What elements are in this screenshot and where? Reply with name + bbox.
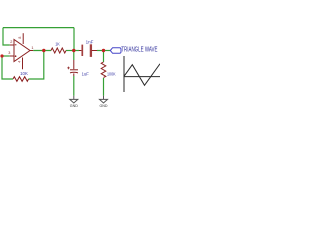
resistor R3 100K (101, 62, 106, 77)
wire feedback bottom (29, 51, 44, 80)
svg-text:3: 3 (8, 51, 10, 55)
junction node output (42, 49, 45, 52)
wire output rail (33, 50, 51, 52)
ground GND2 (100, 96, 108, 103)
svg-text:2: 2 (10, 40, 12, 44)
wire R3 to gnd (103, 78, 105, 96)
capacitor C1 1nF (82, 44, 91, 57)
resistor R1 10K (13, 77, 29, 82)
waveform axis horizontal (124, 76, 160, 78)
wire pin3 horizontal (2, 55, 10, 57)
svg-text:GND: GND (100, 104, 108, 108)
waveform triangle wave (124, 64, 160, 86)
wire top rail down (73, 28, 75, 51)
svg-text:10K: 10K (20, 71, 29, 77)
svg-text:100K: 100K (107, 72, 116, 78)
capacitor C2 1uF polarized (67, 60, 78, 76)
svg-text:TRIANGLE WAVE: TRIANGLE WAVE (121, 44, 157, 53)
waveform axis vertical (123, 56, 125, 92)
wire down to C2 (73, 51, 75, 61)
wire resistor to cap (66, 50, 79, 52)
wire lower left loop (2, 56, 13, 79)
junction node pin3 (0, 54, 3, 57)
op-amp U1 (10, 33, 33, 69)
svg-text:1K: 1K (55, 42, 60, 48)
junction node out flag (102, 49, 105, 52)
op-amp pin labels (8, 37, 33, 63)
junction node cap (72, 49, 75, 52)
wire top rail (3, 27, 74, 29)
svg-text:4: 4 (17, 61, 21, 63)
wire cap to flag (97, 50, 110, 52)
output flag TRIANGLE WAVE (110, 48, 121, 54)
ground GND1 (70, 96, 78, 103)
svg-text:GND: GND (70, 104, 78, 108)
wire C2 to gnd (73, 76, 75, 96)
wire left upper vertical (3, 28, 10, 45)
svg-text:8: 8 (18, 37, 22, 39)
svg-text:1uF: 1uF (82, 71, 89, 77)
svg-text:1nF: 1nF (86, 39, 94, 45)
resistor R2 1K (51, 48, 66, 53)
svg-text:1: 1 (31, 46, 33, 50)
wire down to R3 (103, 51, 105, 63)
